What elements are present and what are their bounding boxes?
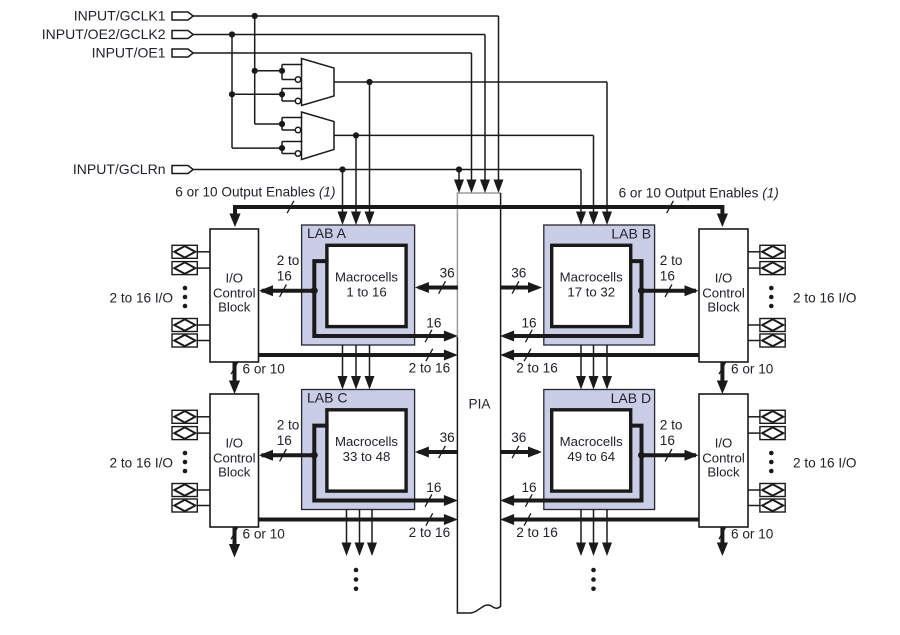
wire LAB B to LAB D xyxy=(589,345,599,390)
svg-text:16: 16 xyxy=(277,433,292,448)
input pin INPUT/OE1 xyxy=(92,45,194,61)
slash 6 or 10 right top xyxy=(719,362,726,374)
label 16 feedback right xyxy=(521,315,536,330)
ellipsis below LAB C xyxy=(354,568,359,591)
svg-text:2 to 16: 2 to 16 xyxy=(409,360,451,375)
wire LAB C output down xyxy=(342,510,352,557)
wire INPUT/OE1 horizontal xyxy=(193,52,471,54)
slash 16 feedback xyxy=(425,494,432,506)
junction hook right xyxy=(638,287,645,294)
svg-text:6 or 10: 6 or 10 xyxy=(731,527,774,542)
wire mux U2 output xyxy=(334,134,594,136)
wire macrocell to I/O control block (left) xyxy=(259,285,314,296)
junction GCLK2 line xyxy=(229,31,235,37)
svg-text:1 to 16: 1 to 16 xyxy=(346,285,386,300)
label 36 left xyxy=(440,266,455,281)
slash 2to16 right xyxy=(524,513,531,525)
wire GCLRn vertical to PIA xyxy=(454,170,464,194)
svg-text:LAB B: LAB B xyxy=(611,226,651,242)
svg-text:Macrocells: Macrocells xyxy=(335,434,398,449)
svg-text:33 to 48: 33 to 48 xyxy=(343,449,391,464)
macrocell box Macrocells 33 to 48 xyxy=(327,410,406,491)
label 6 or 10 Output Enables left xyxy=(175,184,335,199)
wire LAB B to LAB D xyxy=(576,345,586,390)
PIA block xyxy=(457,193,500,613)
I/O cell left bottom #3 xyxy=(172,484,210,497)
svg-text:2 to: 2 to xyxy=(277,418,300,433)
wire LAB A to LAB C xyxy=(338,345,348,390)
mux U1 xyxy=(302,59,335,106)
label 2 to 16 I/O left bottom xyxy=(110,455,173,470)
svg-text:36: 36 xyxy=(440,430,455,445)
junction hook right xyxy=(638,452,645,459)
label 36 right xyxy=(511,430,526,445)
slash 16 feedback right xyxy=(525,330,532,342)
wire INPUT/OE2/GCLK2 vertical to PIA xyxy=(480,35,490,194)
label 16 feedback right xyxy=(521,480,536,495)
ellipsis below LAB D xyxy=(591,568,596,591)
svg-text:16: 16 xyxy=(426,315,441,330)
label 2 to 16 I/O left top xyxy=(110,290,173,305)
I/O cell right bottom #4 xyxy=(748,499,785,512)
wire LAB D output down xyxy=(576,510,586,557)
input pin INPUT/GCLK1 xyxy=(74,8,194,24)
junction mux U1 output branch xyxy=(366,79,372,85)
slash 36 right xyxy=(512,281,519,293)
I/O cell right top #4 xyxy=(748,334,785,347)
I/O cell left top #1 xyxy=(172,245,210,258)
bus slash left xyxy=(287,201,294,213)
slash 6 or 10 left top xyxy=(231,362,238,374)
junction hook xyxy=(311,287,318,294)
I/O control block left top xyxy=(210,229,259,362)
wire I/O feedback 2 to 16 (right) xyxy=(500,350,699,361)
wire mux U1 output xyxy=(334,81,607,83)
wire INPUT/GCLRn horizontal xyxy=(193,169,581,171)
slash 36 left xyxy=(439,446,446,458)
svg-text:INPUT/OE2/GCLK2: INPUT/OE2/GCLK2 xyxy=(42,26,166,42)
I/O cell right top #1 xyxy=(748,245,785,258)
I/O cell left bottom #1 xyxy=(172,410,210,423)
wire mux U2 output vertical to LAB B xyxy=(589,135,599,225)
junction feeder mux1-b xyxy=(229,91,235,97)
slash 2to16 to IO block xyxy=(280,285,287,297)
svg-text:Control: Control xyxy=(702,286,745,301)
I/O ellipsis left bottom xyxy=(183,451,188,474)
wire LAB D output down xyxy=(589,510,599,557)
output enable bus xyxy=(229,207,728,227)
macrocell box Macrocells 49 to 64 xyxy=(552,410,631,491)
LAB block LAB D xyxy=(544,390,655,510)
wire PIA 36 to LAB (right) xyxy=(500,447,542,458)
I/O cell right top #3 xyxy=(748,319,785,332)
wire LAB B to LAB D xyxy=(602,345,612,390)
wire mux U1 output vertical to LAB B xyxy=(602,82,612,225)
label 2 to / 16 xyxy=(277,253,300,284)
label 2 to / 16 right xyxy=(660,418,683,449)
svg-text:2 to 16 I/O: 2 to 16 I/O xyxy=(110,290,173,305)
wire GCLK1 feeder vertical xyxy=(255,16,282,124)
svg-text:16: 16 xyxy=(660,433,675,448)
I/O cell right bottom #1 xyxy=(748,410,785,423)
I/O cell right top #2 xyxy=(748,262,785,275)
label 2 to 16 right xyxy=(516,525,558,540)
wire I/O feedback 2 to 16 (left) xyxy=(259,350,458,361)
wire PIA 36 to LAB (right) xyxy=(500,282,542,293)
junction GCLK1 line xyxy=(252,13,258,19)
I/O cell left bottom #2 xyxy=(172,427,210,440)
label 16 feedback xyxy=(426,315,441,330)
junction hook xyxy=(311,452,318,459)
svg-text:Control: Control xyxy=(702,451,745,466)
svg-text:16: 16 xyxy=(660,269,675,284)
wire mux U1 branch to LAB A xyxy=(365,82,375,225)
svg-text:Block: Block xyxy=(707,465,740,480)
label 6 or 10 Output Enables right xyxy=(619,186,779,201)
svg-text:PIA: PIA xyxy=(469,397,492,412)
slash 16 feedback xyxy=(425,330,432,342)
slash 2to16 to IO block right xyxy=(665,449,672,461)
I/O cell left top #3 xyxy=(172,319,210,332)
wire LAB A to LAB C xyxy=(351,345,361,390)
svg-text:17 to 32: 17 to 32 xyxy=(567,285,615,300)
label 36 left xyxy=(440,430,455,445)
label 2 to 16 I/O right top xyxy=(793,290,856,305)
wire GCLRn branch to LAB A xyxy=(338,170,348,226)
I/O cell left bottom #4 xyxy=(172,499,210,512)
I/O control block right bottom xyxy=(699,394,748,527)
label 2 to 16 right xyxy=(516,360,558,375)
wire INPUT/OE1 vertical to PIA xyxy=(467,53,477,193)
I/O cell left top #2 xyxy=(172,262,210,275)
svg-text:I/O: I/O xyxy=(225,436,243,451)
svg-text:2 to 16: 2 to 16 xyxy=(516,525,558,540)
wire LAB A to LAB C xyxy=(365,345,375,390)
wire macrocell to I/O control block (left) xyxy=(259,450,314,461)
wire mux U2 branch to LAB A xyxy=(351,135,361,225)
svg-text:2 to 16: 2 to 16 xyxy=(409,525,451,540)
wire 6 or 10 right bottom xyxy=(717,527,774,557)
mux U2 inputs with inverter bubbles xyxy=(279,118,303,157)
wire macrocell feedback hook (right LAB) xyxy=(500,426,641,506)
svg-text:16: 16 xyxy=(521,315,536,330)
slash 2to16 left xyxy=(426,513,433,525)
wire INPUT/GCLK1 vertical to PIA xyxy=(494,16,504,193)
wire 6 or 10 right top xyxy=(717,362,774,394)
LAB block LAB B xyxy=(544,225,655,345)
wire PIA 36 to LAB (left) xyxy=(415,447,458,458)
slash 2to16 to IO block right xyxy=(665,285,672,297)
svg-text:36: 36 xyxy=(440,266,455,281)
I/O cell left top #4 xyxy=(172,334,210,347)
wire macrocell feedback hook (left LAB) xyxy=(314,261,458,341)
macrocell box Macrocells 1 to 16 xyxy=(327,245,406,326)
junction mux U2 output branch xyxy=(353,132,359,138)
wire I/O feedback 2 to 16 (right) xyxy=(500,514,699,525)
svg-text:Block: Block xyxy=(707,300,740,315)
wire INPUT/GCLK1 horizontal xyxy=(193,15,498,17)
I/O ellipsis right top xyxy=(769,286,774,309)
wire GCLK2 feeder vertical xyxy=(232,35,282,149)
label 36 right xyxy=(511,266,526,281)
input pin INPUT/GCLRn xyxy=(73,161,193,177)
wire macrocell to I/O control block (right) xyxy=(642,450,699,461)
wire I/O feedback 2 to 16 (left) xyxy=(259,514,458,525)
svg-text:2 to: 2 to xyxy=(660,418,683,433)
wire INPUT/OE2/GCLK2 horizontal xyxy=(193,34,485,36)
wire 6 or 10 left top xyxy=(229,361,285,394)
wire PIA 36 to LAB (left) xyxy=(415,282,458,293)
slash 2to16 to IO block xyxy=(280,449,287,461)
LAB block LAB A xyxy=(302,225,415,345)
I/O control block left bottom xyxy=(210,394,259,527)
svg-text:LAB C: LAB C xyxy=(307,389,347,405)
slash 6 or 10 left bottom xyxy=(231,527,238,539)
wire GCLRn vertical to LAB B xyxy=(576,170,586,226)
svg-text:Control: Control xyxy=(213,451,256,466)
svg-text:2 to 16 I/O: 2 to 16 I/O xyxy=(793,455,856,470)
svg-text:INPUT/GCLK1: INPUT/GCLK1 xyxy=(74,8,166,24)
label 2 to / 16 xyxy=(277,418,300,449)
I/O cell right bottom #2 xyxy=(748,427,785,440)
mux U2 xyxy=(302,112,335,160)
svg-text:16: 16 xyxy=(426,480,441,495)
slash 2to16 right xyxy=(524,349,531,361)
macrocell box Macrocells 17 to 32 xyxy=(552,245,631,326)
svg-text:6 or 10 Output Enables (1): 6 or 10 Output Enables (1) xyxy=(175,184,335,199)
slash 36 right xyxy=(512,446,519,458)
label 2 to / 16 right xyxy=(660,253,683,284)
svg-text:2 to 16: 2 to 16 xyxy=(516,360,558,375)
svg-text:49 to 64: 49 to 64 xyxy=(567,449,615,464)
wire GCLK1 to mux1 stub xyxy=(255,70,282,72)
svg-text:6 or 10: 6 or 10 xyxy=(731,362,774,377)
svg-text:Macrocells: Macrocells xyxy=(335,270,398,285)
wire LAB D output down xyxy=(602,510,612,557)
svg-text:Macrocells: Macrocells xyxy=(560,434,623,449)
wire GCLK2 to mux1 stub xyxy=(232,93,282,95)
svg-text:6 or 10 Output Enables (1): 6 or 10 Output Enables (1) xyxy=(619,186,779,201)
junction GCLRn branch to LAB A xyxy=(339,166,345,172)
svg-text:Control: Control xyxy=(213,286,256,301)
svg-text:Block: Block xyxy=(218,300,251,315)
wire macrocell feedback hook (left LAB) xyxy=(314,426,458,506)
junction feeder mux1-a xyxy=(252,68,258,74)
wire macrocell to I/O control block (right) xyxy=(642,285,699,296)
svg-text:Block: Block xyxy=(218,465,251,480)
label 2 to 16 left xyxy=(409,525,451,540)
svg-text:16: 16 xyxy=(277,269,292,284)
svg-text:LAB D: LAB D xyxy=(611,390,651,406)
I/O cell right bottom #3 xyxy=(748,484,785,497)
svg-text:36: 36 xyxy=(511,430,526,445)
svg-text:I/O: I/O xyxy=(715,436,733,451)
svg-text:6 or 10: 6 or 10 xyxy=(243,527,286,542)
slash 2to16 left xyxy=(426,349,433,361)
label 2 to 16 I/O right bottom xyxy=(793,455,856,470)
LAB block LAB C xyxy=(302,389,415,509)
slash 36 left xyxy=(439,281,446,293)
input pin INPUT/OE2/GCLK2 xyxy=(42,26,193,42)
svg-text:2 to: 2 to xyxy=(277,253,300,268)
I/O control block right top xyxy=(699,229,748,362)
mux U1 inputs with inverter bubbles xyxy=(279,65,303,104)
wire LAB C output down xyxy=(367,510,377,557)
I/O ellipsis left top xyxy=(183,286,188,309)
svg-text:I/O: I/O xyxy=(715,271,733,286)
wire 6 or 10 left bottom xyxy=(229,527,285,558)
svg-text:I/O: I/O xyxy=(225,271,243,286)
slash 16 feedback right xyxy=(525,494,532,506)
label 2 to 16 left xyxy=(409,360,451,375)
svg-text:2 to 16 I/O: 2 to 16 I/O xyxy=(793,290,856,305)
svg-text:16: 16 xyxy=(521,480,536,495)
svg-text:Macrocells: Macrocells xyxy=(560,270,623,285)
svg-text:6 or 10: 6 or 10 xyxy=(243,361,286,376)
wire LAB C output down xyxy=(355,510,365,557)
svg-text:2 to 16 I/O: 2 to 16 I/O xyxy=(110,455,173,470)
bus slash right xyxy=(667,201,674,213)
svg-text:INPUT/OE1: INPUT/OE1 xyxy=(92,45,166,61)
svg-text:36: 36 xyxy=(511,266,526,281)
label 16 feedback xyxy=(426,480,441,495)
svg-text:LAB A: LAB A xyxy=(307,225,347,241)
junction GCLRn-PIA xyxy=(456,166,462,172)
I/O ellipsis right bottom xyxy=(769,451,774,474)
svg-text:2 to: 2 to xyxy=(660,253,683,268)
wire macrocell feedback hook (right LAB) xyxy=(500,261,641,341)
slash 6 or 10 right bottom xyxy=(719,527,726,539)
svg-text:INPUT/GCLRn: INPUT/GCLRn xyxy=(73,161,166,177)
